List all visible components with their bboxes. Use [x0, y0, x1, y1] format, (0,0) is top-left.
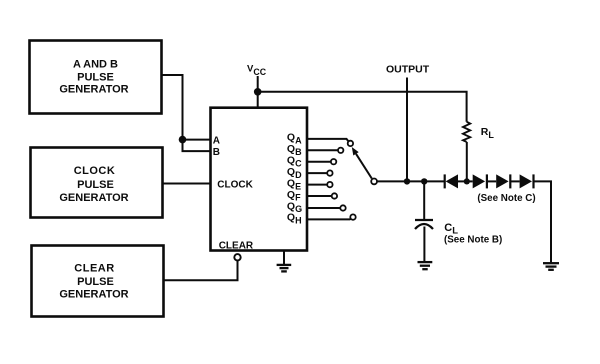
capacitor CL: [415, 220, 433, 229]
diode CR2: [473, 174, 487, 188]
ground under capacitor: [418, 262, 433, 269]
svg-text:A AND B: A AND B: [73, 59, 118, 71]
CLEAR inverter bubble: [234, 254, 240, 260]
wire: CR4 to right ground: [534, 181, 552, 263]
svg-text:A: A: [213, 136, 220, 147]
wire: clear generator to CLEAR bubble: [164, 260, 238, 280]
ground right: [543, 263, 559, 270]
switch pole contact: [371, 179, 377, 185]
switch contact F: [332, 193, 337, 198]
node CL junction dot: [421, 178, 427, 184]
resistor RL: [463, 122, 470, 182]
wire: register GND stub: [283, 251, 285, 265]
shift register U1 body: [211, 108, 308, 251]
switch arm S1: [356, 154, 372, 179]
svg-text:PULSE: PULSE: [77, 179, 114, 191]
svg-text:(See Note C): (See Note C): [477, 193, 535, 204]
wire: QD stub to contact: [307, 172, 327, 174]
wire: node AB to pin B: [183, 140, 211, 152]
svg-text:GENERATOR: GENERATOR: [59, 289, 128, 301]
wire: QB stub to contact: [307, 149, 338, 151]
diode CR3: [496, 174, 510, 188]
svg-text:(See Note B): (See Note B): [444, 234, 502, 245]
wire: node CL down to capacitor: [423, 181, 425, 220]
wire: pole to diode chain rail: [377, 180, 445, 182]
wire: QC stub to contact: [307, 161, 331, 163]
wire: QG stub to contact: [307, 207, 340, 209]
switch contact A: [348, 141, 353, 146]
switch contact B: [338, 148, 343, 153]
wire: CR3 to CR4: [510, 180, 519, 182]
wire: VCC rail to RL: [258, 92, 467, 122]
wire: clock generator to CLOCK pin: [163, 183, 211, 185]
VCC junction dot: [254, 88, 262, 96]
wire: node AB to pin A: [183, 139, 211, 141]
wire: QF stub to contact: [307, 195, 331, 197]
svg-text:B: B: [213, 147, 220, 158]
wire: capacitor to ground: [423, 227, 425, 263]
svg-text:CLOCK: CLOCK: [74, 165, 116, 177]
svg-text:GENERATOR: GENERATOR: [59, 84, 128, 96]
wire: OUTPUT vertical lead: [406, 78, 408, 182]
node RL junction dot: [464, 178, 470, 184]
diode CR4: [520, 174, 534, 188]
svg-text:PULSE: PULSE: [77, 276, 114, 288]
svg-text:CLOCK: CLOCK: [217, 180, 253, 191]
svg-text:CLEAR: CLEAR: [74, 262, 114, 274]
wire: QH stub to contact: [307, 218, 351, 221]
A and B pulse generator box: [30, 41, 162, 114]
clear pulse generator box: [32, 246, 164, 317]
switch contact H: [350, 214, 355, 219]
svg-text:PULSE: PULSE: [77, 72, 114, 84]
svg-text:OUTPUT: OUTPUT: [386, 64, 430, 76]
wire: QA stub to contact: [307, 139, 349, 142]
wire: CR2 to CR3: [487, 180, 496, 182]
clock pulse generator box: [31, 148, 163, 218]
switch contact G: [340, 205, 345, 210]
switch contact C: [331, 159, 336, 164]
ground under register: [277, 265, 292, 272]
switch contact D: [327, 170, 332, 175]
diode CR1 (cathode left): [445, 174, 458, 188]
wire: QE stub to contact: [307, 184, 327, 186]
switch arm arrowhead: [352, 147, 359, 156]
svg-text:GENERATOR: GENERATOR: [59, 192, 128, 204]
switch contact E: [327, 182, 332, 187]
node AB junction dot: [179, 136, 187, 144]
wire: A and B generator to node AB: [162, 75, 183, 140]
node OUTPUT junction dot: [404, 178, 410, 184]
wire: VCC stub into register top: [257, 76, 259, 108]
wire: CR1 to node RL: [458, 180, 473, 182]
svg-text:CLEAR: CLEAR: [219, 241, 254, 252]
